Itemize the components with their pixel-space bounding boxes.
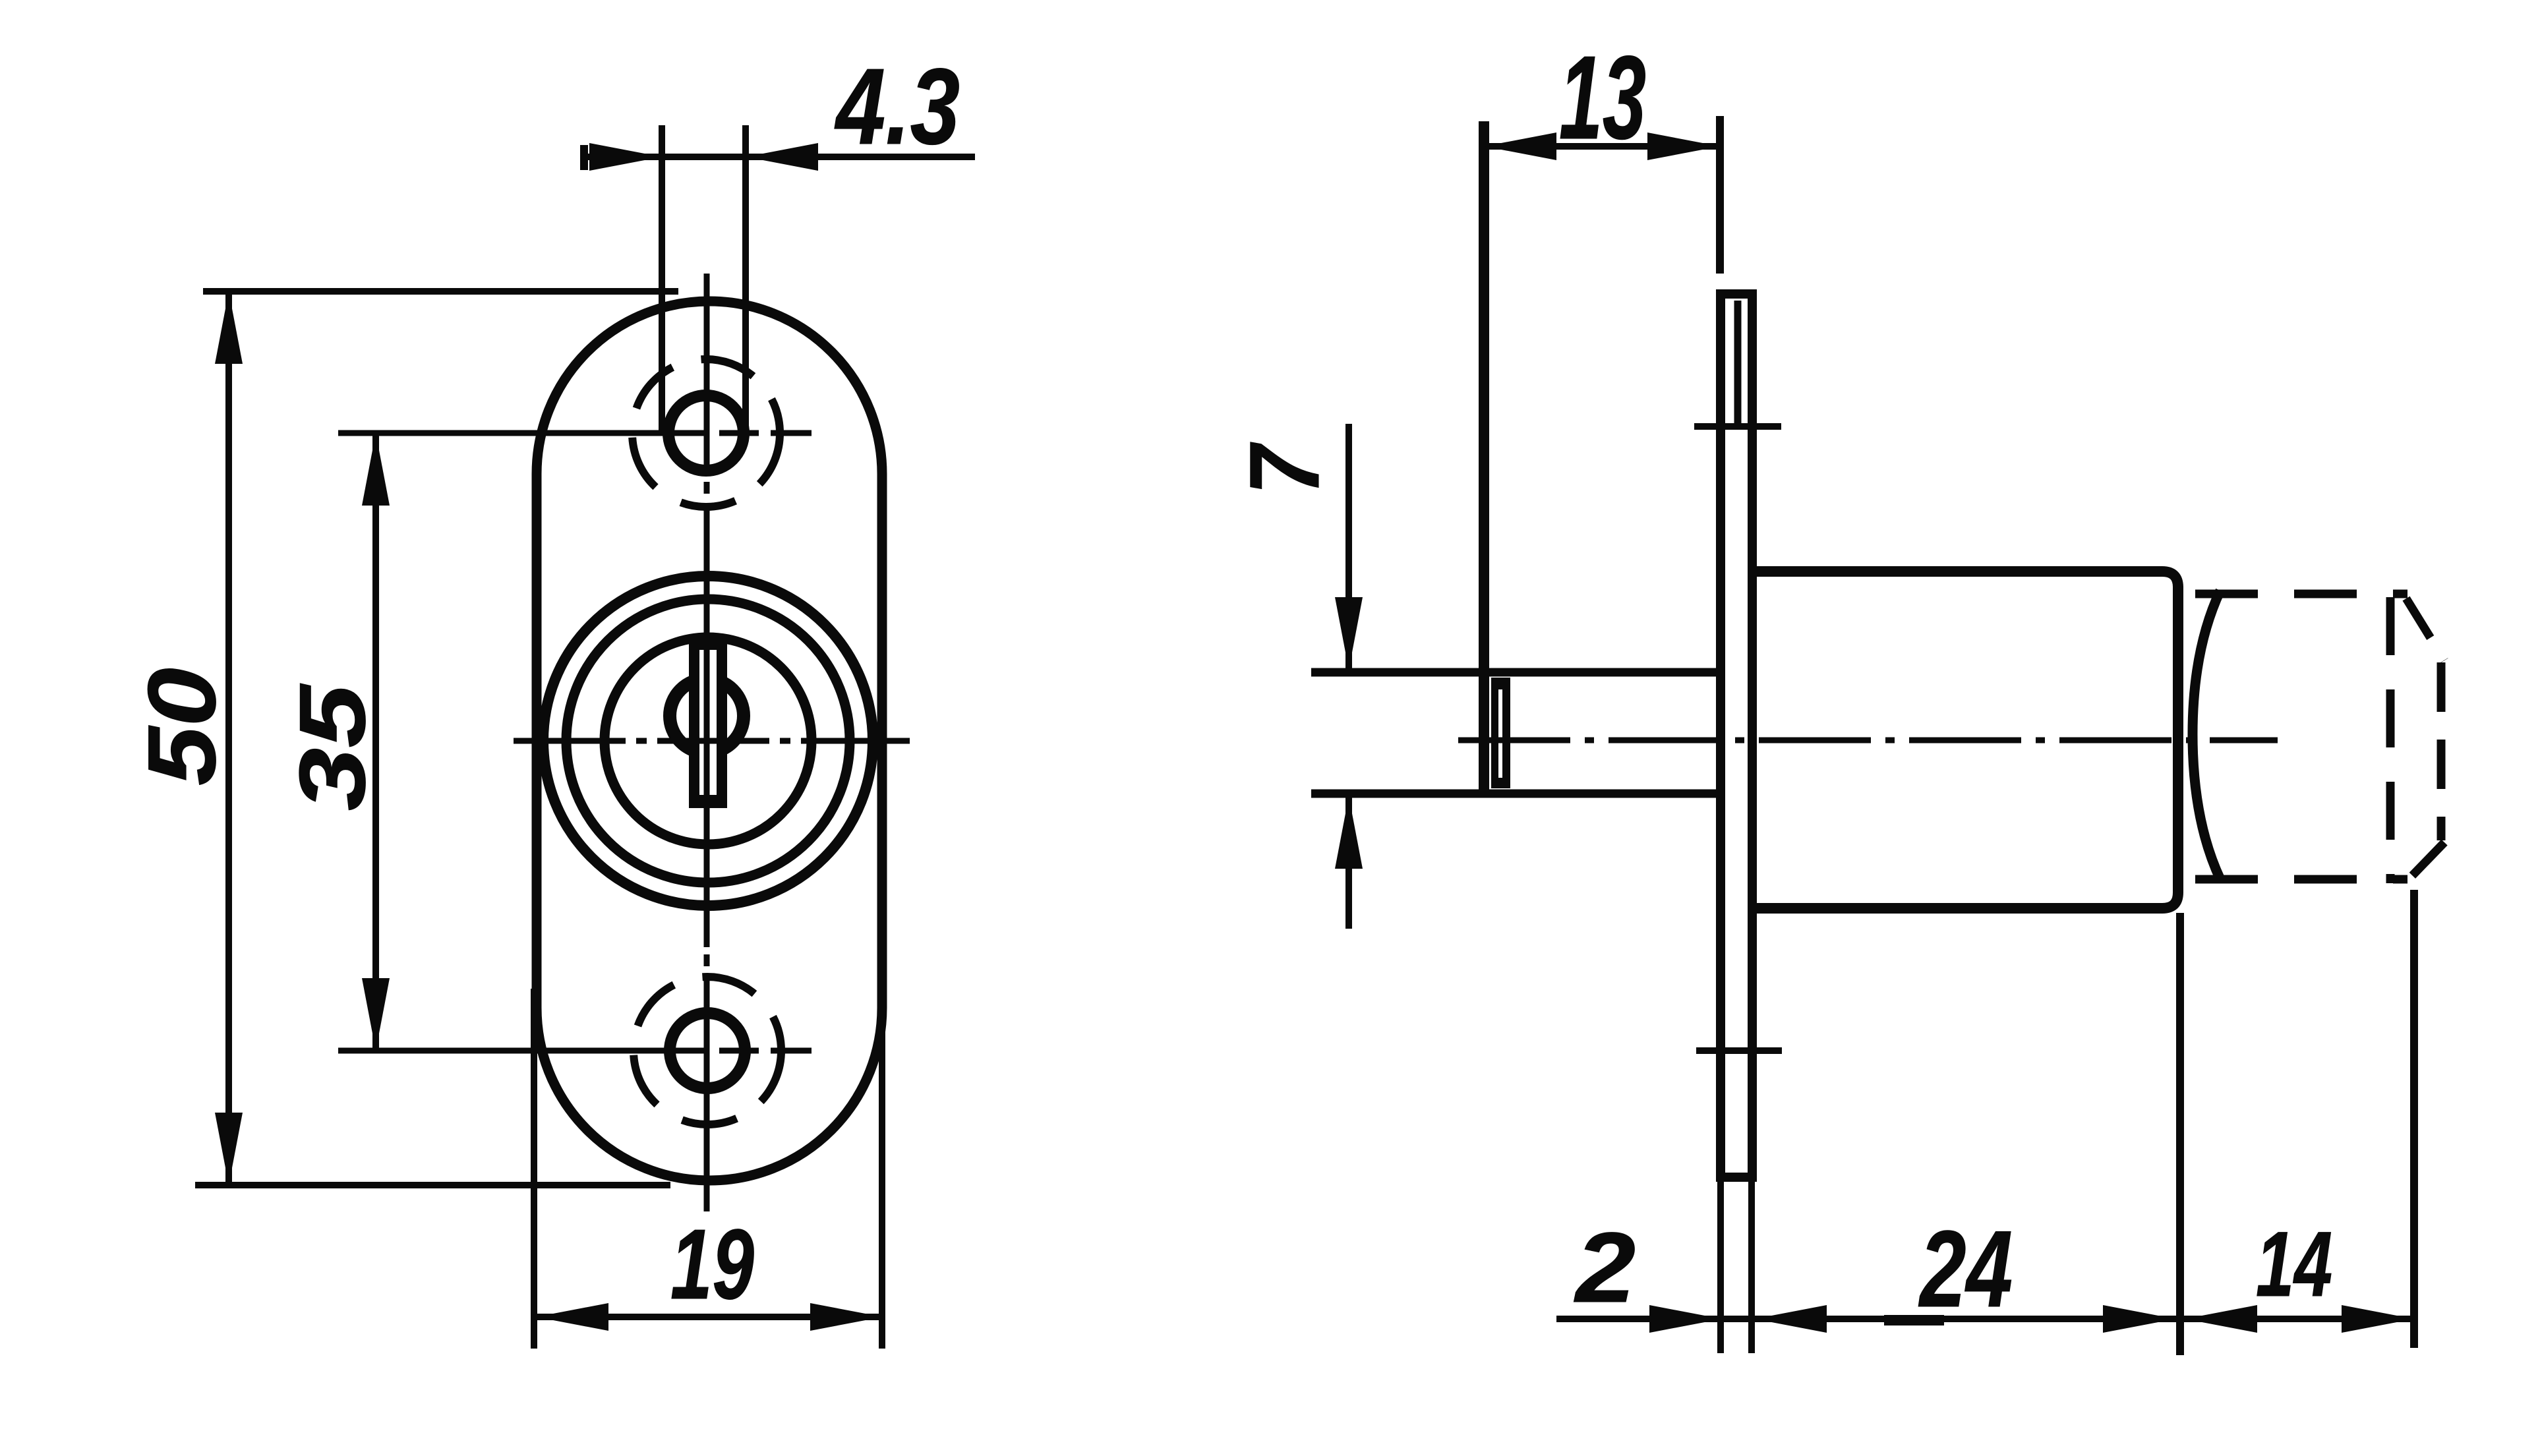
plate horizontal centerline	[514, 738, 910, 744]
extended cap top chamfer (dashed)	[2406, 598, 2444, 660]
dim 19 arrow right	[810, 1303, 883, 1331]
dim 14 extension right	[2410, 890, 2418, 1348]
dim 4.3 line end tick	[580, 145, 588, 170]
dim 7 line lower	[1345, 796, 1352, 929]
dim 7 arrow down	[1335, 597, 1363, 670]
dim line 2-24-14	[1556, 1316, 2417, 1322]
top screw hole	[668, 395, 744, 471]
cylinder plug circle	[605, 637, 812, 844]
dim 2 extension below flange right	[1748, 1180, 1755, 1353]
extended position top line (dashed)	[2195, 590, 2407, 598]
bottom screw hole head circle (dashed)	[634, 977, 781, 1124]
dim 7 line upper	[1345, 424, 1352, 670]
svg-text:7: 7	[1229, 442, 1340, 495]
top hole axis tick (side view)	[1694, 423, 1781, 430]
bottom screw hole	[670, 1013, 745, 1088]
dim 50 extension line bottom	[195, 1182, 670, 1188]
cylinder body (side view)	[1754, 571, 2178, 908]
dim 35 arrow up	[362, 433, 390, 506]
dim 4.3 arrow left	[589, 143, 662, 171]
plate vertical centerline	[704, 274, 710, 1211]
extended cap bottom chamfer (dashed)	[2406, 842, 2444, 882]
cylinder face middle circle	[566, 599, 850, 883]
dim 50 arrow up	[215, 291, 243, 364]
dim 50 extension line top	[203, 288, 678, 295]
dim 4.3 extension left	[659, 125, 665, 435]
dim 19 line	[536, 1314, 883, 1320]
svg-text:14: 14	[2256, 1212, 2332, 1316]
dim 2 arrow left	[1649, 1305, 1722, 1333]
dim 24 arrow right	[2103, 1305, 2175, 1333]
bottom screw hole centerline / 35 extension	[338, 1048, 812, 1054]
dim 19 extension left	[531, 989, 537, 1349]
flange step line	[1734, 301, 1742, 428]
housing rear face (side view)	[1479, 121, 1489, 793]
cylinder face outer circle	[543, 576, 873, 906]
dim 7 arrow up	[1335, 796, 1363, 869]
dim 13 arrow left	[1484, 132, 1556, 160]
dim 2 arrow right	[1754, 1305, 1827, 1333]
svg-text:19: 19	[670, 1208, 754, 1320]
dim 2 extension below flange left	[1717, 1180, 1724, 1353]
top screw hole centerline / 35 extension	[338, 430, 812, 436]
svg-text:4.3: 4.3	[835, 46, 960, 167]
svg-text:2: 2	[1574, 1211, 1636, 1323]
svg-text:50: 50	[128, 668, 235, 786]
dim 35 arrow down	[362, 978, 390, 1051]
keyhole	[670, 638, 744, 808]
latch bar bottom line	[1311, 790, 1716, 798]
extended position bottom line (dashed)	[2195, 875, 2407, 884]
dim 4.3 line	[581, 154, 975, 160]
mounting plate outline (front view)	[537, 301, 882, 1180]
dim 19 extension right	[879, 989, 885, 1349]
latch bar end cap	[1491, 678, 1510, 788]
bottom hole axis tick (side view)	[1696, 1047, 1782, 1054]
dim 50 arrow down	[215, 1113, 243, 1185]
dim line overdraw patch	[1884, 1315, 1944, 1325]
dim 14 arrow right	[2342, 1305, 2414, 1333]
flange plate (side view)	[1721, 294, 1752, 1177]
latch bar top line	[1311, 668, 1716, 677]
dim 4.3 extension right	[742, 125, 749, 435]
cylinder axis centerline	[1458, 738, 2278, 743]
dim 24 extension (cylinder front)	[2176, 913, 2184, 1355]
extended cap front (dashed)	[2437, 662, 2446, 840]
top screw hole head circle (dashed)	[632, 359, 780, 507]
dim 13 extension right (above flange)	[1716, 116, 1724, 274]
dim 4.3 arrow right	[746, 143, 818, 171]
svg-text:35: 35	[280, 684, 385, 811]
dim 19 arrow left	[536, 1303, 608, 1331]
cylinder neck arc	[2193, 591, 2220, 879]
dim 13 line	[1480, 143, 1722, 150]
dim 35 line	[372, 433, 379, 1051]
dim 13 arrow right	[1647, 132, 1720, 160]
svg-text:13: 13	[1559, 32, 1646, 164]
svg-text:24: 24	[1918, 1208, 2013, 1329]
dim 14 arrow left	[2185, 1305, 2257, 1333]
dim 50 line	[225, 291, 232, 1185]
extended position groove (dashed)	[2386, 597, 2395, 883]
